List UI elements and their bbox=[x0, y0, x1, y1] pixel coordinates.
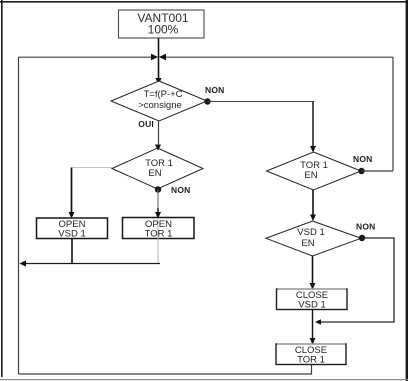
wire D1 to right column (horizontal) bbox=[208, 101, 314, 103]
arrowhead into diamond D1 bbox=[155, 78, 161, 85]
svg-text:VSD 1: VSD 1 bbox=[58, 229, 85, 240]
svg-text:EN: EN bbox=[148, 168, 161, 179]
arrowhead merge before CLOSE TOR 1 bbox=[315, 319, 321, 325]
box CLOSE VSD 1 light top edge bbox=[278, 288, 347, 290]
border right bbox=[406, 0, 408, 381]
arrowhead into OPEN VSD 1 bbox=[69, 212, 75, 219]
wire feedback-right vertical x=393 (top) bbox=[392, 57, 394, 171]
wire D1 to D3 bbox=[158, 121, 160, 145]
arrowhead into feedback-left bbox=[20, 260, 27, 266]
wire D2 to D4 bbox=[312, 190, 314, 217]
border top bbox=[0, 1, 408, 3]
box CLOSE TOR 1 light top edge bbox=[277, 343, 345, 345]
wire D3 left vertex to x=71.5 bbox=[72, 167, 113, 169]
decision diamond D2 TOR 1 EN (right) bbox=[267, 152, 362, 190]
svg-text:>consigne: >consigne bbox=[138, 100, 182, 111]
border left bbox=[1, 0, 3, 377]
junction dot D1 right bbox=[204, 98, 210, 104]
wire top-right horizontal y=57 bbox=[165, 56, 393, 58]
svg-text:NON: NON bbox=[356, 222, 376, 232]
decision diamond D3 TOR 1 EN (left) bbox=[112, 148, 203, 189]
svg-text:VSD 1: VSD 1 bbox=[297, 227, 324, 238]
svg-text:EN: EN bbox=[301, 238, 314, 249]
process box VANT001 bbox=[119, 10, 205, 38]
wire CLOSE TOR 1 to bottom feedback bbox=[19, 365, 312, 375]
wire OPEN VSD 1 down bbox=[71, 239, 73, 265]
wire down into OPEN VSD 1 bbox=[71, 168, 73, 215]
svg-text:OUI: OUI bbox=[138, 119, 154, 129]
wire D2 NON to feedback-right bbox=[362, 170, 394, 172]
wire gray through OPEN TOR 1 bbox=[157, 219, 159, 264]
border bottom bbox=[0, 379, 408, 380]
decision diamond D1 T=f(P-+C >consigne bbox=[111, 81, 207, 121]
wire CLOSE VSD 1 to CLOSE TOR 1 bbox=[312, 310, 314, 341]
wire merge horizontal y=263.5 bbox=[24, 263, 160, 265]
junction dot D4 right bbox=[359, 235, 365, 241]
arrowhead into main line from right bbox=[159, 54, 166, 61]
arrowhead into diamond D4 bbox=[310, 215, 316, 222]
svg-text:VSD 1: VSD 1 bbox=[298, 300, 325, 311]
wire D3 bottom to OPEN TOR 1 bbox=[157, 190, 159, 209]
svg-text:T=f(P-+C: T=f(P-+C bbox=[143, 89, 182, 100]
svg-text:NON: NON bbox=[205, 85, 225, 95]
wire main vertical below VANT001 bbox=[158, 38, 160, 80]
wire D3 bottom to OPEN TOR 1 (dark tail) bbox=[157, 208, 159, 214]
svg-text:100%: 100% bbox=[148, 23, 179, 37]
junction dot D3 bottom bbox=[155, 186, 161, 192]
arrowhead into diamond D3 bbox=[155, 145, 161, 151]
arrowhead into main line from left bbox=[151, 54, 158, 61]
arrowhead into CLOSE VSD 1 bbox=[310, 283, 316, 290]
wire D4 NON feedback down bbox=[320, 238, 394, 322]
wire D4 to CLOSE VSD 1 bbox=[312, 256, 314, 285]
arrowhead into diamond D2 bbox=[310, 146, 316, 153]
wire top-left horizontal y=57 bbox=[19, 56, 153, 58]
wire feedback-left vertical x=18.5 bbox=[18, 57, 20, 374]
svg-text:TOR 1: TOR 1 bbox=[145, 229, 173, 240]
svg-text:TOR 1: TOR 1 bbox=[297, 355, 325, 366]
wire D1 to right column (vertical) bbox=[312, 101, 314, 148]
junction dot D2 right bbox=[358, 168, 364, 174]
svg-text:NON: NON bbox=[353, 154, 373, 164]
svg-text:NON: NON bbox=[171, 185, 191, 195]
arrowhead into OPEN TOR 1 bbox=[155, 212, 161, 219]
process box CLOSE TOR 1 bbox=[276, 344, 346, 365]
process box OPEN TOR 1 bbox=[123, 218, 195, 239]
decision diamond D4 VSD 1 EN bbox=[266, 221, 361, 256]
svg-text:EN: EN bbox=[304, 170, 317, 181]
process box CLOSE VSD 1 bbox=[277, 289, 348, 310]
process box OPEN VSD 1 bbox=[37, 218, 108, 239]
arrowhead into CLOSE TOR 1 bbox=[310, 338, 316, 345]
